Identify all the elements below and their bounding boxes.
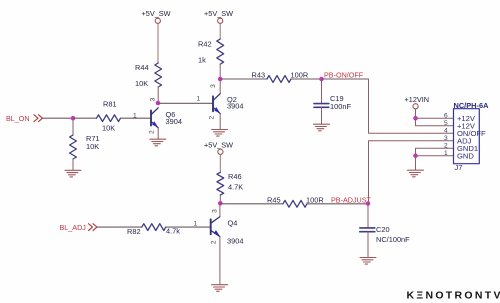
svg-text:3904: 3904 — [166, 117, 182, 126]
wire +5V_SW to R44 — [157, 23, 159, 63]
svg-text:Q4: Q4 — [228, 219, 238, 228]
wire R81 to Q6 base — [121, 117, 151, 119]
wire R44 to Q6 collector — [157, 87, 159, 103]
ground (R71) — [63, 170, 81, 177]
resistor R42 — [217, 39, 224, 64]
svg-text:2: 2 — [149, 130, 156, 134]
wire PB-ON/OFF junction to C19 — [321, 79, 323, 103]
svg-text:R81: R81 — [103, 100, 117, 109]
svg-text:3: 3 — [150, 97, 157, 101]
wire ON/OFF vertical to pin4 row — [369, 79, 454, 133]
svg-text:3: 3 — [211, 209, 218, 213]
svg-text:4.7K: 4.7K — [228, 183, 243, 192]
wire pin6 row — [416, 117, 454, 119]
svg-text:+5V_SW: +5V_SW — [142, 9, 171, 18]
wire Q2 collector to R43 — [220, 78, 267, 80]
junction dot Q2 collector — [218, 77, 223, 82]
wire Q4 collector to R45 — [220, 203, 283, 205]
svg-text:KΞNOTRONTV: KΞNOTRONTV — [407, 290, 500, 302]
svg-text:3904: 3904 — [227, 236, 243, 245]
svg-text:3: 3 — [444, 135, 448, 142]
svg-text:10K: 10K — [135, 79, 148, 88]
junction dot GND pins — [413, 153, 418, 158]
power +5V_SW (R46 branch) — [204, 140, 233, 154]
junction dot +12V pins — [413, 116, 418, 121]
svg-text:100nF: 100nF — [330, 102, 351, 111]
node BL_ON port — [6, 114, 43, 123]
svg-text:PB-ADJUST: PB-ADJUST — [331, 196, 372, 205]
svg-text:2: 2 — [208, 116, 215, 120]
svg-text:R42: R42 — [198, 40, 212, 49]
wire PB-ADJUST junction to C20 — [367, 204, 369, 228]
resistor R81 — [97, 115, 121, 122]
wire ADJ vertical from pin3 row — [369, 141, 454, 204]
svg-text:+5V_SW: +5V_SW — [204, 140, 233, 149]
wire R42 to Q2 collector junction — [219, 64, 221, 79]
svg-text:3: 3 — [210, 84, 217, 88]
wire R45 to PB-ADJUST junction — [307, 203, 368, 205]
svg-text:100R: 100R — [306, 195, 324, 204]
wire Q4 emitter to ground — [219, 237, 221, 285]
svg-text:R46: R46 — [228, 172, 242, 181]
svg-text:R44: R44 — [135, 63, 149, 72]
transistor Q4 — [211, 217, 220, 237]
wire R82 to Q4 base — [166, 226, 210, 228]
svg-text:BL_ADJ: BL_ADJ — [60, 223, 87, 232]
node BL_ADJ port — [60, 223, 98, 232]
wire pin2 row — [416, 148, 454, 156]
svg-text:PB-ON/OFF: PB-ON/OFF — [324, 71, 364, 80]
svg-text:1k: 1k — [198, 56, 206, 65]
resistor R44 — [155, 63, 162, 87]
ground (Q6 emitter) — [148, 139, 166, 146]
wire pin1 row — [416, 155, 454, 157]
transistor Q6 — [151, 108, 158, 128]
ground (Q2 emitter) — [210, 130, 228, 137]
wire Q2 emitter to ground — [219, 114, 221, 130]
power +5V_SW (R42 branch) — [204, 9, 233, 23]
connector J7 NC/PH-6A box — [454, 109, 480, 164]
junction dot BL_ON/R71 — [71, 116, 76, 121]
svg-text:NC/PH-6A: NC/PH-6A — [454, 101, 490, 110]
svg-text:J7: J7 — [455, 163, 463, 172]
svg-text:+12VIN: +12VIN — [405, 95, 430, 104]
svg-text:1: 1 — [133, 112, 137, 119]
svg-text:4.7k: 4.7k — [166, 227, 180, 236]
svg-text:3904: 3904 — [227, 102, 243, 111]
power +12VIN — [405, 95, 430, 109]
svg-text:R43: R43 — [252, 71, 266, 80]
wire PB-ON/OFF junction to corner — [322, 78, 369, 80]
junction dot PB-ON/OFF — [319, 77, 324, 82]
svg-text:2: 2 — [211, 240, 218, 244]
resistor R82 — [142, 224, 166, 231]
wire GND junction down — [415, 156, 417, 170]
svg-text:GND: GND — [457, 152, 474, 161]
junction dot PB-ADJUST — [366, 201, 371, 206]
wire R71 to ground — [72, 159, 74, 170]
svg-text:5: 5 — [444, 120, 448, 127]
svg-text:NC/100nF: NC/100nF — [376, 235, 410, 244]
wire Q4 collector vertical — [219, 203, 221, 216]
wire Q2 collector vertical — [219, 79, 221, 94]
ground (Q4 emitter) — [210, 285, 228, 292]
svg-text:1: 1 — [444, 150, 448, 157]
wire R43 to PB-ON/OFF junction — [291, 78, 322, 80]
svg-text:1: 1 — [197, 96, 201, 103]
wire C20 to ground — [367, 232, 369, 258]
capacitor C20 — [360, 228, 375, 232]
svg-text:100R: 100R — [291, 71, 309, 80]
svg-text:+5V_SW: +5V_SW — [204, 9, 233, 18]
wire C19 to ground — [321, 107, 323, 124]
wire junction to R81 — [73, 117, 97, 119]
svg-text:6: 6 — [444, 112, 448, 119]
wire Q6 collector to Q2 base — [158, 102, 213, 104]
wire junction to R71 — [72, 118, 74, 135]
resistor R71 — [70, 135, 77, 159]
power +5V_SW (R44 branch) — [142, 9, 171, 23]
ground (connector) — [406, 170, 424, 177]
svg-text:BL_ON: BL_ON — [6, 114, 30, 123]
wire +12VIN to pin6 junction — [415, 109, 417, 118]
resistor R43 — [267, 76, 291, 83]
ground (C20) — [358, 258, 376, 265]
wire BL_ADJ to R82 — [97, 226, 142, 228]
transistor Q2 — [213, 94, 220, 114]
capacitor C19 — [314, 104, 329, 108]
svg-text:4: 4 — [444, 127, 448, 134]
svg-text:R82: R82 — [127, 227, 141, 236]
svg-text:C20: C20 — [376, 225, 390, 234]
ground (C19) — [312, 124, 330, 131]
junction dot Q4 collector — [218, 201, 223, 206]
svg-text:2: 2 — [444, 142, 448, 149]
wire pin5 drop — [416, 118, 454, 126]
wire BL_ON to junction — [43, 117, 74, 119]
resistor R46 — [217, 172, 224, 195]
svg-text:10K: 10K — [86, 142, 99, 151]
wire R46 to Q4 collector junction — [219, 195, 221, 203]
svg-text:10K: 10K — [102, 124, 115, 133]
svg-text:R45: R45 — [267, 195, 281, 204]
resistor R45 — [283, 200, 307, 207]
junction dot Q6 collector — [156, 101, 161, 106]
wire +5V_SW to R46 — [219, 154, 221, 172]
wire Q6 emitter to ground — [157, 128, 159, 139]
svg-text:1: 1 — [194, 221, 198, 228]
wire +5V_SW to R42 — [219, 23, 221, 39]
